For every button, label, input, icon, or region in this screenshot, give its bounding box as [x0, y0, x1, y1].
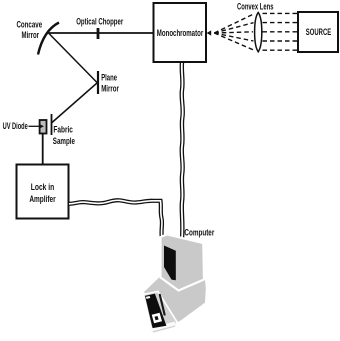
- arrowhead: rays into monochromator: [207, 30, 212, 35]
- source box: [298, 12, 338, 52]
- svg-text:Convex Lens: Convex Lens: [237, 1, 274, 11]
- svg-text:Lock in: Lock in: [31, 182, 55, 192]
- label: Plane Mirror: [101, 72, 119, 93]
- wire: beam mirror to plane mirror: [49, 33, 98, 83]
- label: Fabric Sample: [53, 125, 75, 146]
- monochromator box: [154, 3, 207, 62]
- keyboard black key area: [145, 294, 166, 329]
- svg-text:Mirror: Mirror: [22, 30, 40, 40]
- convex lens: [255, 13, 262, 52]
- optical chopper: [97, 28, 100, 39]
- lock-in amplifier box: [17, 165, 69, 219]
- plane mirror M2: [97, 71, 99, 94]
- svg-text:Monochromator: Monochromator: [157, 28, 204, 38]
- keyboard bottom white face: [150, 322, 176, 332]
- light rays: lens to monochromator (dashed fan): [214, 14, 254, 50]
- svg-text:Amplifer: Amplifer: [29, 194, 56, 204]
- keyboard white key dash: [146, 296, 151, 299]
- fabric sample: [51, 114, 53, 135]
- svg-text:Mirror: Mirror: [101, 84, 119, 94]
- svg-text:Computer: Computer: [184, 227, 214, 237]
- svg-text:Plane: Plane: [101, 72, 117, 82]
- wire: beam mirror to monochromator: [49, 32, 153, 34]
- svg-text:Optical Chopper: Optical Chopper: [76, 16, 123, 26]
- svg-text:UV Diode: UV Diode: [3, 121, 28, 131]
- keyboard body slab: [144, 291, 177, 333]
- svg-text:Concave: Concave: [16, 20, 42, 30]
- svg-text:SOURCE: SOURCE: [306, 27, 331, 37]
- computer monitor body: [161, 234, 205, 290]
- svg-text:Fabric: Fabric: [53, 125, 73, 135]
- label: Lock in Amplifer: [29, 182, 56, 204]
- label: Concave Mirror: [16, 20, 42, 40]
- light rays: source to lens (dashed): [263, 13, 298, 50]
- UV diode detector: [40, 120, 47, 134]
- wire: beam plane mirror to fabric sample: [52, 83, 97, 123]
- svg-text:Sample: Sample: [53, 136, 75, 146]
- cable: lock-in amplifier to computer (double wavy line): [69, 200, 162, 239]
- keyboard white H key: [152, 313, 162, 324]
- wire: diode to lock-in amplifier: [42, 134, 44, 165]
- concave mirror M1: [38, 23, 59, 55]
- computer base: [144, 267, 206, 331]
- keyboard pen stripe: [160, 295, 165, 315]
- pointer wire: label to diode: [29, 124, 45, 128]
- computer screen: [164, 246, 176, 281]
- cable: monochromator to computer (double wavy line): [182, 62, 183, 239]
